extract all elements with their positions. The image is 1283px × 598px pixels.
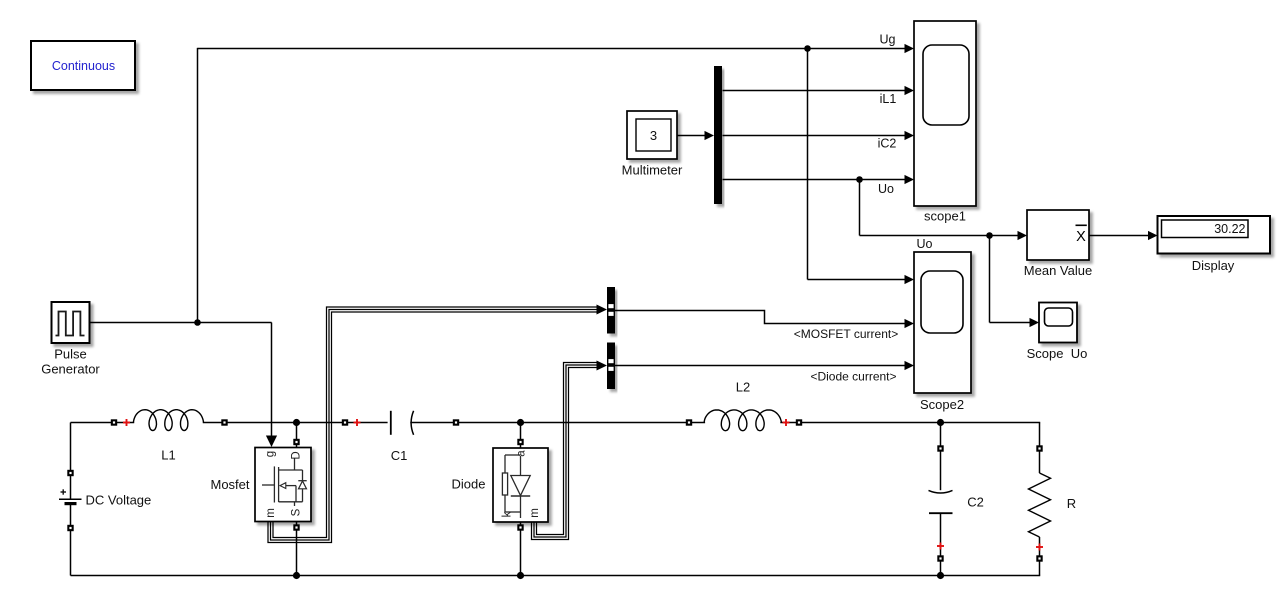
svg-text:<MOSFET current>: <MOSFET current> — [794, 327, 898, 341]
svg-text:S: S — [291, 508, 303, 516]
svg-text:C1: C1 — [391, 448, 408, 463]
svg-text:30.22: 30.22 — [1214, 222, 1245, 236]
svg-text:L2: L2 — [736, 380, 750, 395]
svg-text:X: X — [1076, 229, 1086, 245]
svg-text:scope1: scope1 — [924, 209, 966, 224]
svg-text:a: a — [516, 450, 528, 457]
svg-text:Generator: Generator — [41, 362, 100, 377]
svg-text:Mosfet: Mosfet — [210, 477, 249, 492]
svg-text:C2: C2 — [967, 495, 984, 510]
svg-text:Display: Display — [1192, 258, 1235, 273]
svg-text:D: D — [291, 451, 303, 459]
svg-text:DC Voltage: DC Voltage — [86, 493, 152, 508]
svg-text:m: m — [265, 508, 277, 518]
svg-text:Multimeter: Multimeter — [622, 163, 683, 178]
svg-text:L1: L1 — [161, 448, 175, 463]
svg-text:R: R — [1067, 496, 1076, 511]
svg-text:Uo: Uo — [878, 182, 894, 196]
svg-text:iC2: iC2 — [878, 137, 897, 151]
svg-text:Uo: Uo — [917, 237, 933, 251]
svg-text:Ug: Ug — [880, 33, 896, 47]
svg-text:Continuous: Continuous — [52, 59, 115, 73]
svg-text:3: 3 — [650, 128, 657, 143]
svg-text:m: m — [529, 508, 541, 518]
svg-text:<Diode current>: <Diode current> — [810, 370, 896, 384]
svg-text:iL1: iL1 — [880, 92, 897, 106]
svg-text:Diode: Diode — [452, 477, 486, 492]
svg-text:Mean Value: Mean Value — [1024, 263, 1092, 278]
svg-text:g: g — [265, 451, 277, 457]
svg-text:Pulse: Pulse — [54, 347, 87, 362]
svg-text:k: k — [502, 511, 514, 517]
svg-text:Scope Uo: Scope Uo — [1027, 346, 1088, 361]
svg-text:Scope2: Scope2 — [920, 397, 964, 412]
